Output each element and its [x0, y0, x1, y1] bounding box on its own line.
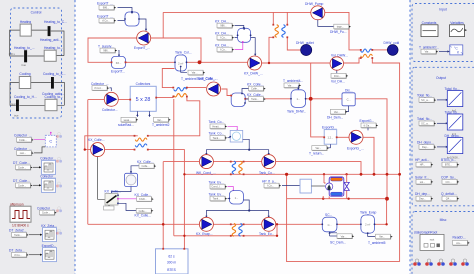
svg-text:Tank...: Tank... — [213, 136, 221, 140]
block degC to K converter — [450, 45, 463, 55]
svg-text:Var...: Var... — [192, 71, 198, 75]
svg-text:ExportG...: ExportG... — [360, 119, 375, 123]
svg-text:Cooling_to_H...: Cooling_to_H... — [14, 95, 37, 99]
canvas left dashed border — [74, 0, 76, 274]
Control panel — [11, 8, 62, 118]
svg-text:Var...: Var... — [379, 235, 385, 239]
svg-text:Code...: Code... — [18, 166, 27, 170]
svg-text:Tank_Ev...: Tank_Ev... — [209, 192, 224, 196]
svg-text:T_ambient5: T_ambient5 — [368, 241, 386, 245]
wire evaporator row y224 — [88, 223, 387, 225]
svg-text:62 s: 62 s — [168, 255, 175, 259]
svg-text:Vol_DH...: Vol_DH... — [331, 79, 345, 83]
svg-text:ExportT_...: ExportT_... — [97, 14, 113, 18]
svg-text:Var...: Var... — [288, 84, 294, 88]
pump KX_DHW — [248, 56, 262, 70]
wire BTES second line y235.8 — [174, 99, 277, 236]
svg-text:Q4...: Q4... — [446, 197, 452, 201]
svg-text:DHW_Pu...: DHW_Pu... — [330, 30, 347, 34]
svg-text:true: true — [14, 114, 19, 118]
svg-text:SC_Dem...: SC_Dem... — [330, 240, 346, 244]
svg-text:DHW_outlet: DHW_outlet — [296, 41, 314, 45]
svg-text:BTES_b...: BTES_b... — [441, 158, 456, 162]
svg-text:Collectors: Collectors — [136, 82, 151, 86]
svg-text:CO...: CO... — [445, 180, 451, 184]
pump Tank_Co — [262, 155, 276, 169]
box below switch — [104, 206, 115, 210]
box T_ambientTank_Col — [181, 67, 187, 73]
svg-text:f.Co...: f.Co... — [267, 184, 274, 188]
svg-text:DT_Code...: DT_Code... — [13, 161, 30, 165]
Cooling state-cycle wires — [10, 83, 64, 106]
BTES borefield block — [156, 249, 189, 274]
wire ExportG pump down — [363, 137, 374, 174]
Output panel — [412, 67, 474, 206]
svg-text:DHW_Pump: DHW_Pump — [305, 2, 323, 6]
wire HX2 return to east riser — [372, 58, 399, 262]
svg-text:ExportG_...: ExportG_... — [347, 147, 364, 151]
faint medium icons column — [56, 132, 62, 234]
svg-text:Colle...: Colle... — [251, 87, 259, 91]
wire HX_coll bottom-right loop to HX_B — [148, 97, 200, 136]
wire Tank_Col to KX_DHW pump — [187, 61, 248, 63]
svg-text:f.Co...: f.Co... — [220, 36, 227, 40]
svg-text:1.2...: 1.2... — [328, 136, 334, 140]
svg-text:Total_flo...: Total_flo... — [417, 93, 432, 97]
svg-text:csv...: csv... — [456, 242, 462, 245]
svg-text:ExportT...: ExportT... — [111, 70, 125, 74]
svg-text:DT_Zeta...: DT_Zeta... — [9, 249, 25, 253]
svg-text:1/2 86400 s: 1/2 86400 s — [12, 223, 29, 227]
svg-text:ExportT_...: ExportT_... — [97, 1, 113, 5]
svg-text:Collector...: Collector... — [102, 108, 118, 112]
svg-text:Cooling_to...: Cooling_to... — [45, 95, 64, 99]
svg-text:T_supply...: T_supply... — [98, 44, 114, 48]
pump Tank_Ev — [262, 217, 276, 231]
svg-text:Drin...: Drin... — [334, 74, 341, 78]
right sidebar background — [410, 0, 474, 274]
svg-text:Collector_...: Collector_... — [91, 82, 109, 86]
svg-text:Tank_Co...: Tank_Co... — [209, 132, 225, 136]
wire condenser return bus y174 — [184, 173, 399, 175]
svg-text:KX_Colle...: KX_Colle... — [105, 190, 122, 194]
svg-text:986...: 986... — [103, 49, 110, 53]
navy out to KX_Colle tag 2 — [119, 203, 136, 210]
wire Dis to riser x387 — [355, 99, 387, 199]
Input panel — [412, 4, 474, 62]
block Tank_Co (controller) — [230, 130, 243, 142]
svg-text:ExportG...: ExportG... — [322, 126, 337, 130]
svg-text:SC_a...: SC_a... — [421, 122, 430, 126]
Misc panel — [412, 212, 474, 274]
svg-text:T_ambient2: T_ambient2 — [152, 123, 170, 127]
svg-text:HP_fl_a...: HP_fl_a... — [262, 179, 277, 183]
svg-text:ExportT_...: ExportT_... — [134, 46, 150, 50]
svg-text:Q_deficit...: Q_deficit... — [441, 192, 457, 196]
svg-text:BTES: BTES — [167, 268, 176, 272]
svg-text:WK_Cond_...: WK_Cond_... — [196, 171, 216, 175]
svg-text:Misc: Misc — [440, 218, 447, 222]
svg-text:Var...: Var... — [315, 146, 321, 150]
svg-text:Heat: Heat — [10, 102, 16, 106]
wire riser x386.6 — [386, 199, 388, 225]
svg-text:Tank_Ev...: Tank_Ev... — [209, 180, 224, 184]
svg-text:1...: 1... — [296, 97, 300, 101]
canvas right dashed border — [409, 0, 411, 274]
wire riser x310.7 to ExportG — [311, 63, 325, 137]
svg-text:KX_Colle...: KX_Colle... — [247, 93, 264, 97]
hx HX_C condenser (blue left / orange right) — [232, 161, 235, 174]
svg-text:Collector_...: Collector_... — [14, 147, 32, 151]
svg-text:KX_Colle...: KX_Colle... — [137, 160, 154, 164]
svg-text:T_ambient?...: T_ambient?... — [419, 45, 439, 49]
svg-text:KX_DH...: KX_DH... — [215, 19, 229, 23]
svg-text:KX_DH...: KX_DH... — [215, 43, 229, 47]
svg-text:T_return...: T_return... — [309, 151, 324, 155]
svg-text:5 x 28: 5 x 28 — [136, 97, 151, 103]
svg-text:weat...: weat... — [124, 118, 132, 122]
Heating state-cycle wires — [10, 30, 64, 56]
svg-text:KX_Colle...: KX_Colle... — [88, 138, 105, 142]
wire pumps row y161.5 — [163, 162, 361, 175]
svg-text:2 m³: 2 m³ — [365, 223, 370, 227]
svg-text:DH_Dem...: DH_Dem... — [327, 115, 343, 119]
svg-text:DT_Code...: DT_Code... — [13, 179, 30, 183]
left sidebar background — [0, 0, 75, 274]
svg-text:Colle...: Colle... — [19, 138, 27, 142]
block Tank_Ev (controller) — [229, 191, 243, 204]
block KX (district heating) — [112, 56, 126, 68]
block mixer B2 — [238, 28, 251, 42]
svg-text:Var...: Var... — [425, 50, 431, 54]
svg-text:tf.Co...: tf.Co... — [102, 19, 110, 23]
svg-text:KX_DHW_...: KX_DHW_... — [244, 72, 263, 76]
svg-text:Tank...: Tank... — [14, 233, 22, 237]
svg-text:HP...: HP... — [420, 163, 426, 167]
svg-text:DT_Zeta2...: DT_Zeta2... — [9, 229, 26, 233]
svg-text:986...: 986... — [103, 6, 110, 10]
block Tank_DHW — [291, 90, 306, 108]
svg-text:C...: C... — [328, 223, 332, 227]
svg-text:Tank_Co...: Tank_Co... — [259, 171, 275, 175]
svg-text:2 m³: 2 m³ — [178, 61, 183, 65]
svg-text:Solar_fr...: Solar_fr... — [415, 175, 429, 179]
svg-text:tf.Co...: tf.Co... — [14, 253, 22, 257]
wire HX2 to DHW_cold — [372, 49, 387, 51]
wire DHW main top line — [163, 12, 361, 50]
svg-text:Heating_to_C...: Heating_to_C... — [44, 20, 67, 24]
hx HX_coll (blue top / orange bottom) — [174, 88, 187, 91]
svg-text:Var...: Var... — [334, 110, 340, 114]
wire pump ExportT to riser — [151, 12, 202, 62]
svg-text:HP_acti...: HP_acti... — [415, 158, 429, 162]
pump ExportG — [349, 130, 363, 144]
svg-text:Tank_Col...: Tank_Col... — [175, 51, 192, 55]
svg-text:Coll_Colle_...: Coll_Colle_... — [198, 77, 218, 81]
svg-text:COP_Sy...: COP_Sy... — [441, 175, 456, 179]
svg-text:Dis...: Dis... — [345, 89, 353, 93]
svg-text:Tank...: Tank... — [251, 97, 259, 101]
svg-text:DH_dep...: DH_dep... — [415, 192, 430, 196]
svg-text:Collector_...: Collector_... — [14, 134, 32, 138]
block mixer B1 — [125, 12, 139, 26]
wire HX1 stubs — [273, 12, 301, 50]
wire pump KX_Colle out to HX_B — [105, 149, 135, 151]
pump KX_Evap — [199, 217, 213, 231]
wire T_supply to KX block — [118, 50, 121, 55]
heat pump HP — [329, 177, 344, 196]
svg-text:KXdl...: KXdl... — [139, 197, 147, 201]
wire KX_Colle to Tank_DHW — [245, 98, 342, 100]
svg-text:tf.Col...: tf.Col... — [94, 86, 102, 90]
pump WK_Cond — [199, 155, 213, 169]
svg-text:Cooling_to_K...: Cooling_to_K... — [43, 72, 66, 76]
svg-text:DH_depo...: DH_depo... — [417, 140, 434, 144]
pump ExportT — [137, 31, 151, 45]
svg-text:root: root — [430, 237, 435, 241]
svg-text:Code...: Code... — [42, 211, 51, 215]
svg-text:Colle...: Colle... — [139, 209, 147, 213]
medium icons row — [413, 259, 421, 266]
magenta out to KX_Colle tag — [119, 198, 137, 200]
svg-text:Dep...: Dep... — [422, 145, 429, 149]
wire HP bottom bus y198.7 — [287, 198, 387, 200]
svg-text:DHW_cold: DHW_cold — [384, 41, 400, 45]
pump Collector — [104, 92, 118, 106]
svg-text:Tank...: Tank... — [213, 197, 221, 201]
wire Vol_DHW out to HX2 — [344, 58, 361, 63]
block KX_Colle — [231, 93, 245, 107]
svg-text:f.Co...: f.Co... — [220, 48, 227, 52]
wire collector loop west riser — [88, 98, 174, 225]
wires into mixer B2 — [235, 26, 244, 38]
wire B2 to pump KX_DHW — [251, 38, 256, 55]
svg-text:Cooling: Cooling — [19, 72, 30, 76]
svg-text:KX...: KX... — [116, 61, 122, 65]
signal bus to evaporator pumps — [206, 200, 268, 216]
wire pump control down to switch — [98, 157, 105, 200]
wire HX_B out east then south to BTES — [148, 150, 185, 249]
svg-text:Dep...: Dep... — [419, 197, 426, 201]
svg-text:986...: 986... — [220, 24, 227, 28]
svg-text:rest...: rest... — [20, 151, 27, 155]
svg-text:Cond_l...: Cond_l... — [211, 185, 222, 189]
svg-text:KX_Colle...: KX_Colle... — [247, 82, 264, 86]
svg-text:Heating_to_...: Heating_to_... — [14, 46, 35, 50]
block C (Collector control) — [45, 135, 56, 147]
wire HX_coll top to Tank_Col bottom — [162, 69, 174, 88]
svg-text:KX_Evap...: KX_Evap... — [196, 232, 213, 236]
svg-text:C...: C... — [347, 98, 351, 102]
svg-text:1...: 1... — [235, 196, 239, 200]
svg-text:300 m: 300 m — [167, 260, 176, 264]
svg-text:Var...: Var... — [157, 118, 163, 122]
hx HX_evap (orange left / blue right) — [232, 223, 235, 236]
svg-text:sol...: sol... — [420, 180, 426, 184]
svg-text:BTE...: BTE... — [445, 163, 452, 167]
svg-text:Tank_Co...: Tank_Co... — [209, 120, 225, 124]
svg-text:true: true — [22, 63, 27, 67]
signal bus to condenser pumps — [206, 139, 268, 154]
svg-text:Code...: Code... — [18, 184, 27, 188]
wire KX_DHW pump out — [262, 37, 330, 63]
wires to mixer block — [118, 8, 133, 21]
svg-text:Output: Output — [436, 76, 446, 80]
expansion valve — [344, 182, 349, 190]
svg-text:ReadD...: ReadD... — [453, 236, 466, 240]
svg-text:T_ambient4...: T_ambient4... — [283, 79, 303, 83]
svg-text:Tank_DHW...: Tank_DHW... — [287, 109, 306, 113]
svg-text:Heating_to...: Heating_to... — [44, 46, 63, 50]
svg-text:Total_flo...: Total_flo... — [417, 117, 432, 121]
wire ExportG block to pump — [337, 136, 349, 138]
svg-text:SC_a...: SC_a... — [421, 98, 430, 102]
svg-text:Heating_acti...: Heating_acti... — [40, 38, 61, 42]
svg-text:tf.Ga...: tf.Ga... — [364, 124, 372, 128]
svg-text:Tank_Ev...: Tank_Ev... — [259, 232, 274, 236]
svg-text:Control: Control — [31, 11, 42, 15]
svg-text:Tank_Evap: Tank_Evap — [360, 211, 376, 215]
signal boxes under collectors — [137, 111, 149, 117]
svg-text:Heati...: Heati... — [212, 125, 220, 129]
svg-text:SC...: SC... — [325, 213, 332, 217]
wire block to pump ExportT — [139, 19, 146, 30]
svg-text:tapp...: tapp... — [337, 25, 344, 29]
wire HX_coll to pump Coll_Colle — [187, 88, 231, 96]
svg-text:Colle...: Colle... — [141, 164, 149, 168]
hx HX2 (blue top / orange bottom) — [361, 49, 373, 52]
wire supply top-left loop — [88, 38, 175, 62]
svg-text:Input: Input — [439, 8, 446, 12]
wire magenta to C block — [34, 133, 51, 140]
svg-text:solarRad...: solarRad... — [118, 123, 134, 127]
hx HX1 (orange left / blue right) — [275, 25, 278, 38]
svg-text:Vol_DHW...: Vol_DHW... — [331, 53, 348, 57]
svg-text:Var...: Var... — [341, 234, 347, 238]
svg-text:C: C — [49, 139, 52, 144]
block HP_fl — [300, 179, 311, 193]
wire riser x163 to BTES — [162, 162, 164, 249]
svg-text:Collector_...: Collector_... — [37, 206, 55, 210]
wire HX_B top-left down to pump KX_Colle — [85, 136, 138, 150]
block delay/timer KX_Colle — [124, 173, 137, 186]
svg-text:KX_DH...: KX_DH... — [215, 31, 229, 35]
wire bottom-right rectangle — [287, 174, 400, 261]
svg-text:KX_Colle...: KX_Colle... — [135, 214, 152, 218]
hx HX_B (orange top / blue bottom) — [135, 138, 147, 141]
svg-text:100 s: 100 s — [9, 52, 16, 56]
